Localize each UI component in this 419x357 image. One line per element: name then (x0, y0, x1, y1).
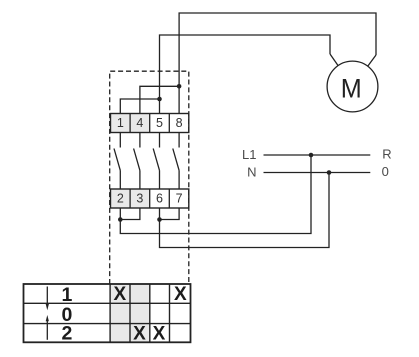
contact 1-2 bottom stub (119, 170, 121, 189)
svg-text:X: X (133, 324, 146, 345)
svg-text:5: 5 (156, 116, 163, 130)
contact 5-6 bottom stub (159, 170, 161, 189)
junction node on wire 5 (157, 97, 162, 102)
wire terminals 2-3 to L1 (120, 155, 311, 234)
svg-text:8: 8 (176, 116, 183, 130)
svg-text:4: 4 (136, 116, 143, 130)
contact 5-6 blade (153, 149, 159, 171)
svg-text:M: M (341, 75, 362, 104)
wire terminal 1 to node on wire 5 (120, 99, 159, 114)
wire terminal 5 to motor left (160, 35, 331, 114)
junction node on L1 (309, 153, 314, 158)
contact 8-7 top stub (178, 133, 180, 148)
terminal cell divider 2|3 (129, 189, 131, 208)
wire terminals 6-7 to N (160, 173, 330, 248)
junction node on wire 8 (177, 84, 182, 89)
position arrow down (1 to 0) (46, 287, 48, 305)
table column line b (129, 284, 131, 342)
terminal cell divider 3|6 (149, 189, 151, 208)
svg-text:1: 1 (117, 116, 124, 130)
junction node on N (327, 170, 332, 175)
svg-text:X: X (153, 324, 166, 345)
motor M1 circle (327, 61, 378, 112)
position arrow up (2 to 0) (46, 321, 48, 340)
contact 1-2 blade (114, 149, 120, 171)
svg-text:7: 7 (176, 191, 183, 205)
junction node terminal 2 (118, 217, 123, 222)
table column line d (169, 284, 171, 342)
terminal cell divider 4|5 (149, 114, 151, 133)
contact 1-2 top stub (119, 133, 121, 148)
terminal cell divider 1|4 (129, 114, 131, 133)
contact 4-3 top stub (139, 133, 141, 148)
terminal cell divider 6|7 (168, 189, 170, 208)
table column line c (149, 284, 151, 342)
svg-text:3: 3 (136, 191, 143, 205)
svg-text:R: R (382, 147, 391, 162)
switching table shaded column band (110, 284, 150, 342)
jumper terminals 6-7 (160, 208, 180, 220)
supply line L1-R (264, 154, 371, 156)
contact 4-3 bottom stub (139, 170, 141, 189)
supply line N-0 (264, 172, 371, 174)
wire motor left lead (330, 54, 338, 66)
switching table outer border (24, 284, 191, 342)
svg-text:2: 2 (61, 322, 72, 344)
wire motor right lead (368, 55, 376, 66)
wire terminal 8 to motor right (179, 13, 376, 114)
table row line 1|0 (24, 302, 191, 304)
switch enclosure S1 (dashed box) (110, 71, 189, 284)
svg-text:1: 1 (61, 284, 72, 306)
jumper terminals 2-3 (120, 208, 140, 220)
wire terminal 4 to node on wire 8 (140, 86, 179, 113)
contact 8-7 bottom stub (178, 170, 180, 189)
terminal cell divider 5|8 (168, 114, 170, 133)
terminal strip top row border (111, 114, 189, 133)
svg-text:N: N (247, 165, 256, 180)
svg-text:2: 2 (117, 191, 124, 205)
terminal strip bottom row border (111, 189, 189, 208)
svg-text:X: X (114, 284, 127, 305)
svg-text:L1: L1 (242, 147, 256, 162)
svg-text:X: X (174, 284, 187, 305)
svg-text:0: 0 (382, 164, 389, 179)
table row line 0|2 (24, 323, 191, 325)
contact 8-7 blade (173, 149, 179, 171)
contact 4-3 blade (134, 149, 140, 171)
terminal strip top row cells 1,4 shaded (111, 114, 150, 133)
svg-text:6: 6 (156, 191, 163, 205)
terminal strip bottom row cells 2,3 shaded (111, 189, 150, 208)
contact 5-6 top stub (159, 133, 161, 148)
table column line a (109, 284, 111, 342)
junction node terminal 6 (157, 217, 162, 222)
